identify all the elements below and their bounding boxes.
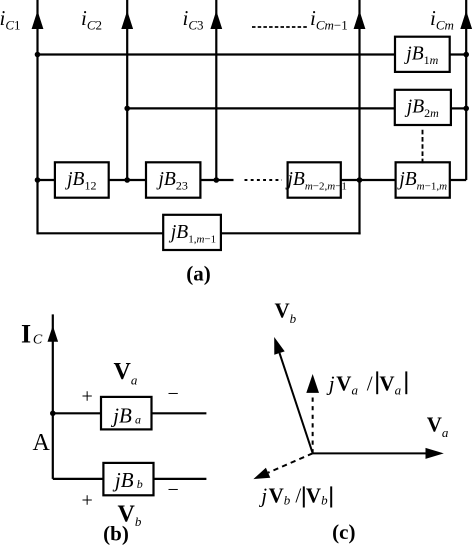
arrow: V_b head	[274, 337, 285, 355]
wire: bus 3 (i_C3 branch)	[215, 0, 217, 180]
susceptance B23 box	[146, 162, 200, 197]
node: bus2 / row3 junction	[124, 177, 130, 183]
svg-text:iCm−1: iCm−1	[310, 6, 348, 32]
susceptance B1m box	[395, 37, 450, 72]
svg-text:j: j	[258, 483, 267, 507]
svg-text:jBb: jBb	[112, 468, 143, 492]
susceptance B2m box	[395, 90, 451, 125]
wire: B1m to bus m	[450, 53, 467, 55]
svg-text:Vb: Vb	[269, 483, 291, 507]
svg-text:Va: Va	[114, 359, 138, 388]
vector V_b line	[280, 353, 313, 453]
susceptance Bm-2,m-1 box	[288, 162, 341, 197]
svg-text:(c): (c)	[332, 520, 355, 544]
svg-text:IC: IC	[21, 319, 43, 348]
wire: B_b right lead	[154, 478, 207, 480]
arrow: current I_C	[48, 326, 59, 342]
label jV_a/|V_a|	[326, 371, 407, 397]
vector jV_a/|V_a| dashed line	[312, 394, 314, 454]
node: bus m / row2 junction	[463, 106, 469, 112]
svg-text:Va: Va	[379, 372, 401, 398]
svg-text:jBm−2,m−1: jBm−2,m−1	[284, 169, 346, 193]
wire: bottom row bus1 to B1,m-1	[38, 232, 164, 234]
svg-text:jBa: jBa	[110, 404, 141, 428]
svg-text:jB2m: jB2m	[404, 97, 439, 121]
arrow: current i_C2	[121, 11, 133, 29]
node: bus m-1 / row3 junction	[357, 177, 363, 183]
susceptance B1,m-1 box	[163, 215, 221, 250]
svg-text:Va: Va	[336, 372, 358, 398]
wire: bus m-1 branch	[358, 0, 360, 234]
svg-text:−: −	[168, 479, 179, 501]
arrow: current i_Cm	[460, 11, 472, 29]
svg-text:iC3: iC3	[183, 6, 204, 32]
susceptance Bm-1,m box	[396, 162, 450, 197]
node: bus3 / row3 junction	[214, 177, 220, 183]
wire: dashed continuation to Bm-2,m-1	[245, 179, 283, 181]
svg-text:+: +	[82, 490, 93, 512]
susceptance B12 box	[55, 162, 109, 197]
wire: node A to B_b	[53, 478, 104, 480]
svg-text:(b): (b)	[103, 522, 129, 545]
arrow: V_a head	[426, 448, 444, 459]
node A junction	[50, 411, 56, 417]
svg-text:A: A	[33, 430, 51, 456]
arrow: current i_Cm-1	[354, 11, 366, 29]
svg-text:jB23: jB23	[156, 169, 188, 193]
svg-text:jB1m: jB1m	[403, 44, 438, 68]
svg-text:(a): (a)	[186, 261, 211, 285]
wire: Bm-2,m-1 to Bm-1,m	[341, 179, 396, 181]
arrow: current i_C3	[210, 11, 222, 29]
wire: row 2 (bus2 to B2m)	[127, 107, 395, 109]
node: bus1 / row1 junction	[35, 52, 41, 58]
svg-text:/: /	[295, 483, 301, 507]
wire: B2m to bus m	[451, 107, 466, 109]
svg-text:Vb: Vb	[306, 483, 328, 507]
arrow: current i_C1	[32, 11, 44, 29]
wire: bus 2 (i_C2 branch)	[126, 0, 128, 180]
node: bus m / row1 junction	[463, 52, 469, 58]
wire: dashed continuation B2m to Bm-1,m	[422, 130, 424, 164]
svg-text:iCm: iCm	[430, 6, 454, 32]
vector V_a axis line	[313, 452, 427, 454]
wire: bus 1 (i_C1 branch)	[36, 0, 38, 234]
arrow: jV_a/|V_a| head	[306, 374, 319, 393]
susceptance B_b box	[103, 463, 153, 495]
wire: I_C branch vertical	[52, 314, 54, 479]
wire: dashed continuation between i_C3 and i_Cm-1	[252, 26, 307, 28]
label jV_b/|V_b|	[258, 483, 331, 507]
node: bus2 / row2 junction	[124, 106, 130, 112]
svg-text:Va: Va	[427, 413, 449, 441]
wire: B12 to B23	[109, 179, 146, 181]
susceptance B_a box	[101, 397, 152, 430]
wire: B1,m-1 to bus m-1	[221, 232, 361, 234]
svg-text:+: +	[82, 386, 93, 408]
wire: B23 to right of bus3	[200, 179, 233, 181]
vector jV_b/|V_b| dashed line	[268, 453, 313, 472]
node: bus1 / row3 junction	[35, 177, 41, 183]
wire: row 1 (bus1 to B1m)	[38, 53, 396, 55]
svg-text:jB1,m−1: jB1,m−1	[168, 222, 216, 246]
svg-text:iC1: iC1	[0, 6, 21, 32]
wire: bus m branch	[465, 0, 467, 180]
svg-text:/: /	[367, 372, 373, 396]
arrow: jV_b/|V_b| head	[253, 468, 270, 479]
svg-text:jBm−1,m: jBm−1,m	[396, 169, 447, 193]
wire: Bm-1,m to bus m	[450, 179, 466, 181]
svg-text:−: −	[168, 383, 179, 405]
svg-text:iC2: iC2	[81, 6, 102, 32]
svg-text:jB12: jB12	[64, 169, 96, 193]
wire: bus1 to B12	[38, 179, 55, 181]
wire: node A to B_a	[53, 412, 101, 414]
svg-text:Vb: Vb	[275, 299, 297, 327]
wire: B_a right lead	[152, 412, 207, 414]
svg-text:j: j	[326, 372, 335, 396]
